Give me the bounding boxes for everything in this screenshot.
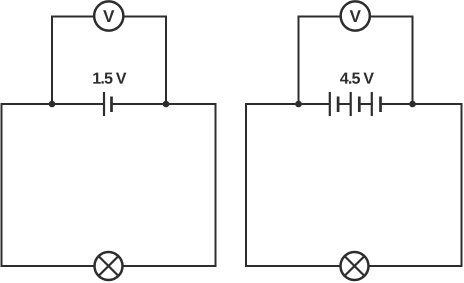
lamp L2 bbox=[341, 252, 369, 280]
wire: left circuit top side, left segment bbox=[1, 103, 105, 105]
wire: link cell B2b to B2c bbox=[359, 103, 372, 105]
wire: right voltmeter loop, top left segment bbox=[298, 16, 342, 18]
battery cell B1, long plate (positive) bbox=[103, 92, 105, 116]
wire: left voltmeter loop, left vertical bbox=[51, 16, 53, 105]
lamp L1 bbox=[95, 252, 123, 280]
wire: left voltmeter loop, top right segment bbox=[123, 16, 167, 18]
wire: left circuit left side bbox=[1, 103, 3, 267]
node A: junction dot left circuit, left tap bbox=[49, 101, 56, 108]
wire: right circuit bottom side, right segment bbox=[369, 265, 463, 267]
voltmeter V1 bbox=[94, 1, 123, 30]
label: battery B1 value 1.5 V bbox=[93, 73, 126, 84]
voltmeter V2 bbox=[341, 1, 370, 30]
wire: left circuit bottom side, right segment bbox=[123, 265, 217, 267]
wire: left circuit right side bbox=[215, 103, 217, 267]
wire: right voltmeter loop, right vertical bbox=[412, 16, 414, 105]
wire: left circuit top side, right segment bbox=[112, 103, 217, 105]
wire: left voltmeter loop, right vertical bbox=[165, 16, 167, 105]
label: battery B2 value 4.5 V bbox=[340, 73, 374, 84]
battery cell B2a, short plate bbox=[337, 97, 340, 113]
node B: junction dot left circuit, right tap bbox=[163, 101, 170, 108]
wire: left circuit bottom side, left segment bbox=[1, 265, 95, 267]
wire: link cell B2a to B2b bbox=[338, 103, 351, 105]
node D: junction dot right circuit, right tap bbox=[409, 101, 416, 108]
battery cell B2c, short plate bbox=[379, 97, 382, 113]
wire: left voltmeter loop, top left segment bbox=[51, 16, 95, 18]
battery cell B1, short plate (negative) bbox=[110, 97, 113, 113]
wire: right voltmeter loop, top right segment bbox=[370, 16, 414, 18]
node C: junction dot right circuit, left tap bbox=[295, 101, 302, 108]
wire: right circuit top side, left segment bbox=[246, 103, 330, 105]
battery cell B2b, long plate bbox=[350, 92, 352, 116]
battery cell B2b, short plate bbox=[358, 97, 361, 113]
wire: right circuit left side bbox=[245, 103, 247, 267]
battery cell B2c, long plate bbox=[371, 92, 373, 116]
wire: right circuit top side, right segment bbox=[381, 103, 462, 105]
wire: right voltmeter loop, left vertical bbox=[298, 16, 300, 105]
wire: right circuit right side bbox=[461, 103, 463, 267]
wire: right circuit bottom side, left segment bbox=[245, 265, 341, 267]
battery cell B2a, long plate bbox=[329, 92, 331, 116]
